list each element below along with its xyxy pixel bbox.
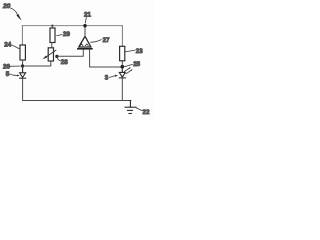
svg-text:27: 27	[103, 37, 110, 44]
left rail wire	[21, 26, 23, 45]
svg-text:23: 23	[136, 48, 143, 55]
ground 22	[125, 101, 136, 114]
resistor R24	[20, 45, 25, 60]
node 25 dot	[121, 65, 125, 69]
label 20	[2, 3, 22, 21]
wire op-amp non-inverting input to node 25	[90, 49, 121, 67]
wire LED to bottom rail	[121, 78, 123, 101]
svg-text:28: 28	[61, 59, 68, 66]
label 23	[126, 48, 143, 55]
label 21	[84, 12, 91, 23]
top rail wire	[22, 25, 122, 27]
wiper node dot	[55, 55, 58, 58]
bottom rail wire	[23, 100, 131, 102]
svg-text:3: 3	[105, 75, 109, 82]
wire R23 to node 25	[121, 61, 123, 67]
LED emission arrows	[124, 67, 132, 74]
junction dot middle branch on rail	[51, 25, 53, 27]
label 3	[105, 75, 118, 82]
wire R24 to node 26	[22, 60, 24, 66]
photodiode D5	[20, 67, 26, 78]
node 21 dot	[83, 24, 86, 27]
label 5	[6, 71, 20, 78]
op-amp U27	[78, 36, 92, 49]
svg-text:25: 25	[133, 61, 140, 68]
right rail wire	[121, 26, 123, 47]
svg-text:29: 29	[63, 31, 70, 38]
label 22	[136, 108, 150, 116]
svg-text:26: 26	[3, 63, 10, 70]
svg-text:20: 20	[2, 3, 11, 10]
potentiometer R28	[43, 48, 56, 61]
wire R29 to potentiometer	[51, 43, 53, 48]
wire wiper to op-amp inverting input	[57, 49, 83, 56]
svg-text:5: 5	[6, 71, 10, 78]
label 29	[57, 31, 71, 38]
wire diode 5 to bottom rail	[22, 78, 24, 100]
label 26	[3, 63, 20, 70]
LED D3	[119, 67, 125, 78]
label 25	[124, 61, 140, 68]
svg-text:22: 22	[143, 109, 150, 116]
wire op-amp apex to node 21	[84, 26, 86, 37]
resistor R23	[120, 46, 125, 61]
wire node 26 to potentiometer bottom	[23, 61, 51, 66]
node 26 dot	[21, 64, 24, 67]
svg-text:21: 21	[84, 12, 91, 19]
resistor R29	[50, 28, 55, 43]
label 24	[4, 41, 19, 48]
wire rail to R29	[51, 26, 53, 28]
svg-text:24: 24	[4, 41, 11, 48]
label 27	[91, 37, 110, 44]
label 28	[57, 58, 68, 66]
